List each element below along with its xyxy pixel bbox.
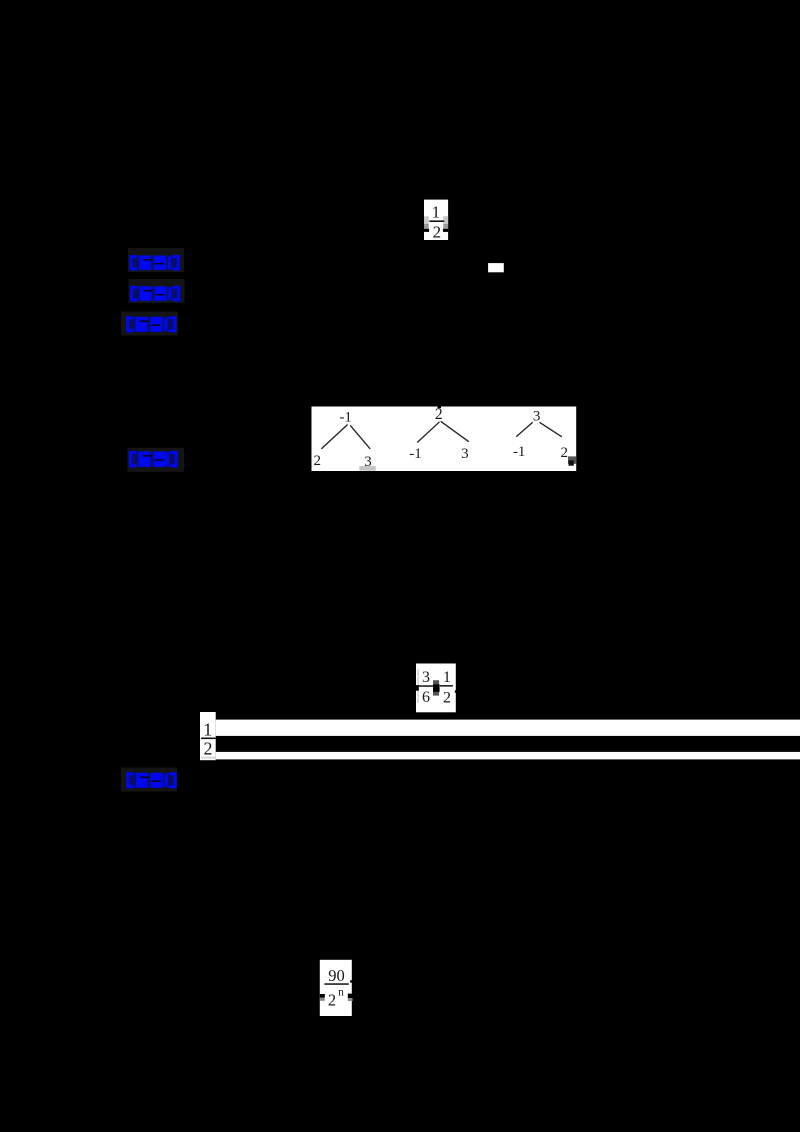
comma mark at box corner [568,456,576,463]
svg-text:6: 6 [422,689,430,706]
blue label jieda [128,448,185,472]
white highlight bar 1 [216,720,800,736]
blue label dianping [121,768,177,792]
svg-text:-1: -1 [409,446,422,462]
white dash image [488,263,504,272]
svg-text:n: n [338,986,344,998]
svg-text:-1: -1 [339,410,352,426]
svg-text:2: 2 [313,453,321,469]
white highlight bar 2 [216,752,800,760]
svg-text:2: 2 [435,406,443,423]
equation image 3/6=1/2 [416,664,457,713]
svg-text:3: 3 [533,408,541,424]
svg-text:2: 2 [443,690,451,707]
svg-text:1: 1 [443,669,451,686]
svg-text:3: 3 [461,446,469,462]
svg-text:1: 1 [432,203,441,222]
svg-text:1: 1 [203,720,212,740]
svg-text:-1: -1 [513,444,526,460]
blue label zhuanti [129,279,185,303]
equation image 1/2 (left) [200,712,216,760]
tree diagram image box [312,406,577,471]
svg-text:3: 3 [422,669,430,686]
equation image 1/2 (top) [424,200,448,242]
equation image 90/2^n [320,960,353,1016]
svg-text:2: 2 [328,990,336,1009]
svg-text:2: 2 [560,445,568,461]
blue label kaodian [128,248,184,272]
svg-text:2: 2 [433,222,442,241]
svg-text:90: 90 [328,966,345,985]
blue label fenxi [121,312,178,336]
svg-text:2: 2 [204,739,213,759]
